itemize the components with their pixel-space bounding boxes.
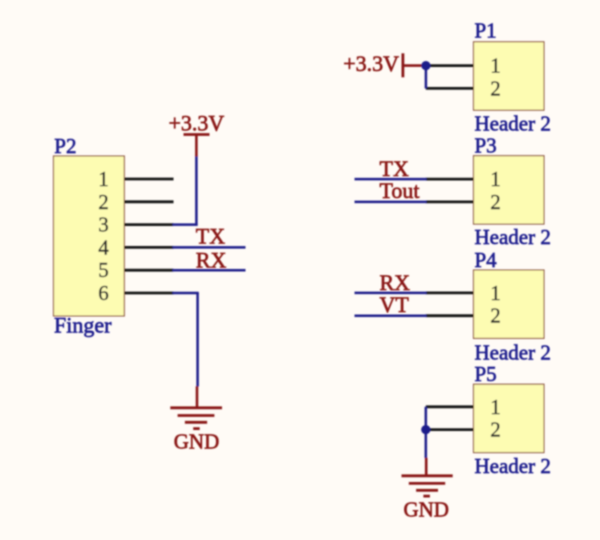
connector P3 body bbox=[474, 156, 545, 224]
connector P2 body bbox=[54, 156, 125, 316]
svg-text:+3.3V: +3.3V bbox=[169, 110, 225, 135]
power port +3.3V bar (left) bbox=[184, 133, 210, 136]
wire pin6 horizontal bbox=[173, 292, 199, 295]
connector P4 body bbox=[474, 270, 545, 338]
power port +3.3V bar (right) bbox=[401, 53, 404, 77]
pin 2 lead (P3) bbox=[426, 200, 474, 203]
wire RX (left) bbox=[173, 269, 246, 272]
svg-text:1: 1 bbox=[490, 395, 501, 419]
wire P5 pin1-pin2 vertical bbox=[425, 407, 428, 430]
svg-text:Header 2: Header 2 bbox=[475, 454, 551, 478]
svg-text:P2: P2 bbox=[54, 134, 76, 158]
wire TX (right) bbox=[355, 178, 427, 181]
svg-text:2: 2 bbox=[490, 190, 501, 214]
svg-text:Finger: Finger bbox=[54, 313, 112, 338]
pin 1 lead (P4) bbox=[426, 291, 474, 294]
svg-text:GND: GND bbox=[403, 498, 449, 522]
pin 1 lead (P2) bbox=[124, 178, 173, 181]
svg-text:VT: VT bbox=[380, 292, 410, 317]
svg-text:RX: RX bbox=[380, 270, 411, 295]
ground GND stem (left) bbox=[196, 386, 199, 408]
svg-text:2: 2 bbox=[490, 304, 501, 328]
wire P5 to GND vertical bbox=[425, 430, 428, 458]
pin 2 lead (P2) bbox=[124, 200, 173, 203]
svg-text:2: 2 bbox=[490, 418, 501, 442]
power port +3.3V stem (left) bbox=[195, 135, 198, 157]
wire Tout bbox=[355, 201, 427, 204]
pin 5 lead (P2) bbox=[124, 269, 173, 272]
svg-text:5: 5 bbox=[98, 258, 109, 282]
junction dot (P1) bbox=[421, 61, 430, 70]
svg-text:TX: TX bbox=[380, 156, 409, 181]
wire pin3 to +3.3V horizontal bbox=[173, 223, 198, 226]
wire P1 pin1-pin2 vertical bbox=[425, 66, 428, 89]
svg-text:1: 1 bbox=[490, 281, 501, 305]
junction dot (P5) bbox=[421, 425, 430, 434]
pin 4 lead (P2) bbox=[124, 246, 173, 249]
svg-text:1: 1 bbox=[490, 54, 501, 78]
pin 3 lead (P2) bbox=[124, 223, 173, 226]
svg-text:TX: TX bbox=[196, 224, 225, 249]
svg-text:P3: P3 bbox=[475, 134, 497, 158]
pin 2 lead (P4) bbox=[426, 314, 474, 317]
wire VT bbox=[355, 314, 427, 317]
svg-text:1: 1 bbox=[490, 167, 501, 191]
wire pin6 to GND vertical bbox=[196, 293, 199, 387]
svg-text:Tout: Tout bbox=[380, 178, 420, 203]
svg-text:P5: P5 bbox=[475, 362, 497, 386]
wire RX (right) bbox=[355, 292, 427, 295]
wire TX (left) bbox=[173, 246, 246, 249]
pin 1 lead (P5) bbox=[426, 405, 474, 408]
svg-text:6: 6 bbox=[98, 281, 109, 305]
svg-text:1: 1 bbox=[98, 167, 109, 191]
ground GND stem (right) bbox=[425, 458, 428, 476]
svg-text:P4: P4 bbox=[475, 248, 498, 272]
wire +3.3V vertical bbox=[195, 156, 198, 226]
pin 6 lead (P2) bbox=[124, 292, 173, 295]
power port +3.3V stem (right) bbox=[403, 64, 426, 67]
ground GND bars (right) bbox=[402, 476, 453, 496]
svg-text:3: 3 bbox=[98, 213, 109, 237]
pin 2 lead (P1) bbox=[426, 87, 474, 90]
svg-text:2: 2 bbox=[98, 190, 109, 214]
connector P5 body bbox=[474, 384, 545, 452]
pin 2 lead (P5) bbox=[426, 428, 474, 431]
ground GND bars (left) bbox=[170, 408, 222, 429]
svg-text:Header 2: Header 2 bbox=[475, 225, 551, 249]
svg-text:2: 2 bbox=[490, 76, 501, 100]
svg-text:Header 2: Header 2 bbox=[475, 112, 551, 136]
svg-text:RX: RX bbox=[196, 247, 227, 272]
svg-text:GND: GND bbox=[174, 429, 220, 453]
svg-text:+3.3V: +3.3V bbox=[343, 51, 399, 76]
pin 1 lead (P3) bbox=[426, 178, 474, 181]
svg-text:P1: P1 bbox=[475, 19, 497, 43]
svg-text:4: 4 bbox=[98, 235, 109, 259]
connector P1 body bbox=[474, 42, 545, 110]
pin 1 lead (P1) bbox=[426, 64, 474, 67]
